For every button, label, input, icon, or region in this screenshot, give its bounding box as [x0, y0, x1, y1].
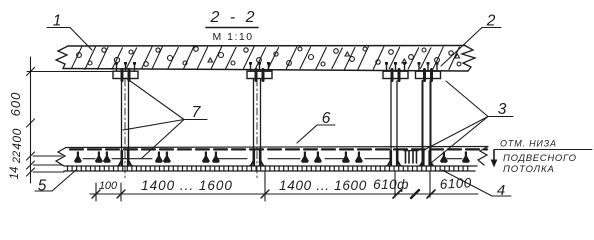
dimension text 610f [373, 177, 409, 192]
callout 4 (plaster layer) with leader [442, 170, 511, 199]
left vertical dimension line with ticks [27, 57, 113, 183]
callout 1 (slab) with leader [47, 13, 92, 51]
dimension text 400 [10, 128, 24, 150]
anchor bracket of hanger 4 [416, 62, 441, 81]
callout 7 (hanger parts) with leaders [123, 78, 207, 158]
callout 5 (bottom sheet) with leader [35, 170, 76, 195]
svg-text:100: 100 [99, 180, 118, 192]
note text PODVESNOGO [503, 153, 577, 164]
anchor bracket of hanger 1 [113, 62, 138, 81]
svg-text:ОТМ. НИЗА: ОТМ. НИЗА [500, 139, 557, 149]
note text OTM. NIZA [500, 139, 557, 149]
svg-text:22: 22 [11, 151, 23, 164]
furring clips on ceiling frame [74, 152, 470, 163]
hanger rod 1 [122, 79, 129, 178]
svg-text:14: 14 [9, 167, 21, 180]
hanger-to-channel connection 1 [117, 151, 133, 166]
suspended ceiling frame band [56, 147, 488, 172]
bottom dimension line with ticks [90, 172, 478, 201]
svg-text:ПОДВЕСНОГО: ПОДВЕСНОГО [503, 153, 577, 164]
svg-text:6100: 6100 [439, 175, 472, 192]
svg-text:1400 ... 1600: 1400 ... 1600 [141, 178, 233, 193]
svg-text:7: 7 [192, 104, 202, 121]
dimension text 22 [11, 151, 23, 164]
svg-text:2 - 2: 2 - 2 [209, 9, 257, 26]
dimension text 1400...1600 (first bay) [141, 178, 233, 193]
hanger-to-channel connection 3 [386, 151, 402, 166]
dimension text 14 [9, 167, 21, 180]
hanger rod 2 [254, 79, 261, 178]
callout 6 (carrying channel) with leader [297, 110, 335, 143]
dimension text 100 [99, 180, 118, 192]
svg-text:5: 5 [38, 178, 47, 195]
hanger-to-channel connection 2 [249, 151, 265, 166]
hanger rod 4 [423, 81, 431, 165]
elevation mark line and arrow [491, 150, 592, 168]
svg-text:1400 ... 1600: 1400 ... 1600 [279, 178, 367, 193]
svg-text:400: 400 [10, 128, 24, 150]
anchor bracket of hanger 2 [247, 62, 272, 81]
dimension text 600 [8, 92, 23, 117]
concrete floor slab (hatched section) [56, 46, 475, 72]
dimension text 1400...1600 (second bay) [279, 178, 367, 193]
hanger-to-channel connection 4 [419, 151, 435, 166]
anchor bracket of hanger 3 [383, 62, 408, 81]
callout 2 (anchor) with leader [441, 13, 501, 67]
svg-text:3: 3 [498, 101, 507, 118]
main runner section pieces between hangers 3 and 4 [404, 151, 418, 164]
dimension text 6100 [439, 175, 472, 192]
furring channel sections inside band [83, 158, 462, 160]
note text POTOLKA [503, 164, 555, 175]
svg-text:600: 600 [8, 92, 23, 117]
svg-text:М 1:10: М 1:10 [212, 31, 253, 43]
svg-text:ПОТОЛКА: ПОТОЛКА [503, 164, 555, 175]
svg-text:610ф: 610ф [373, 177, 409, 192]
title section mark 2-2 [206, 9, 258, 43]
callout 3 (hanger connections) with leaders [424, 81, 513, 163]
hanger rod 3 [391, 81, 397, 165]
